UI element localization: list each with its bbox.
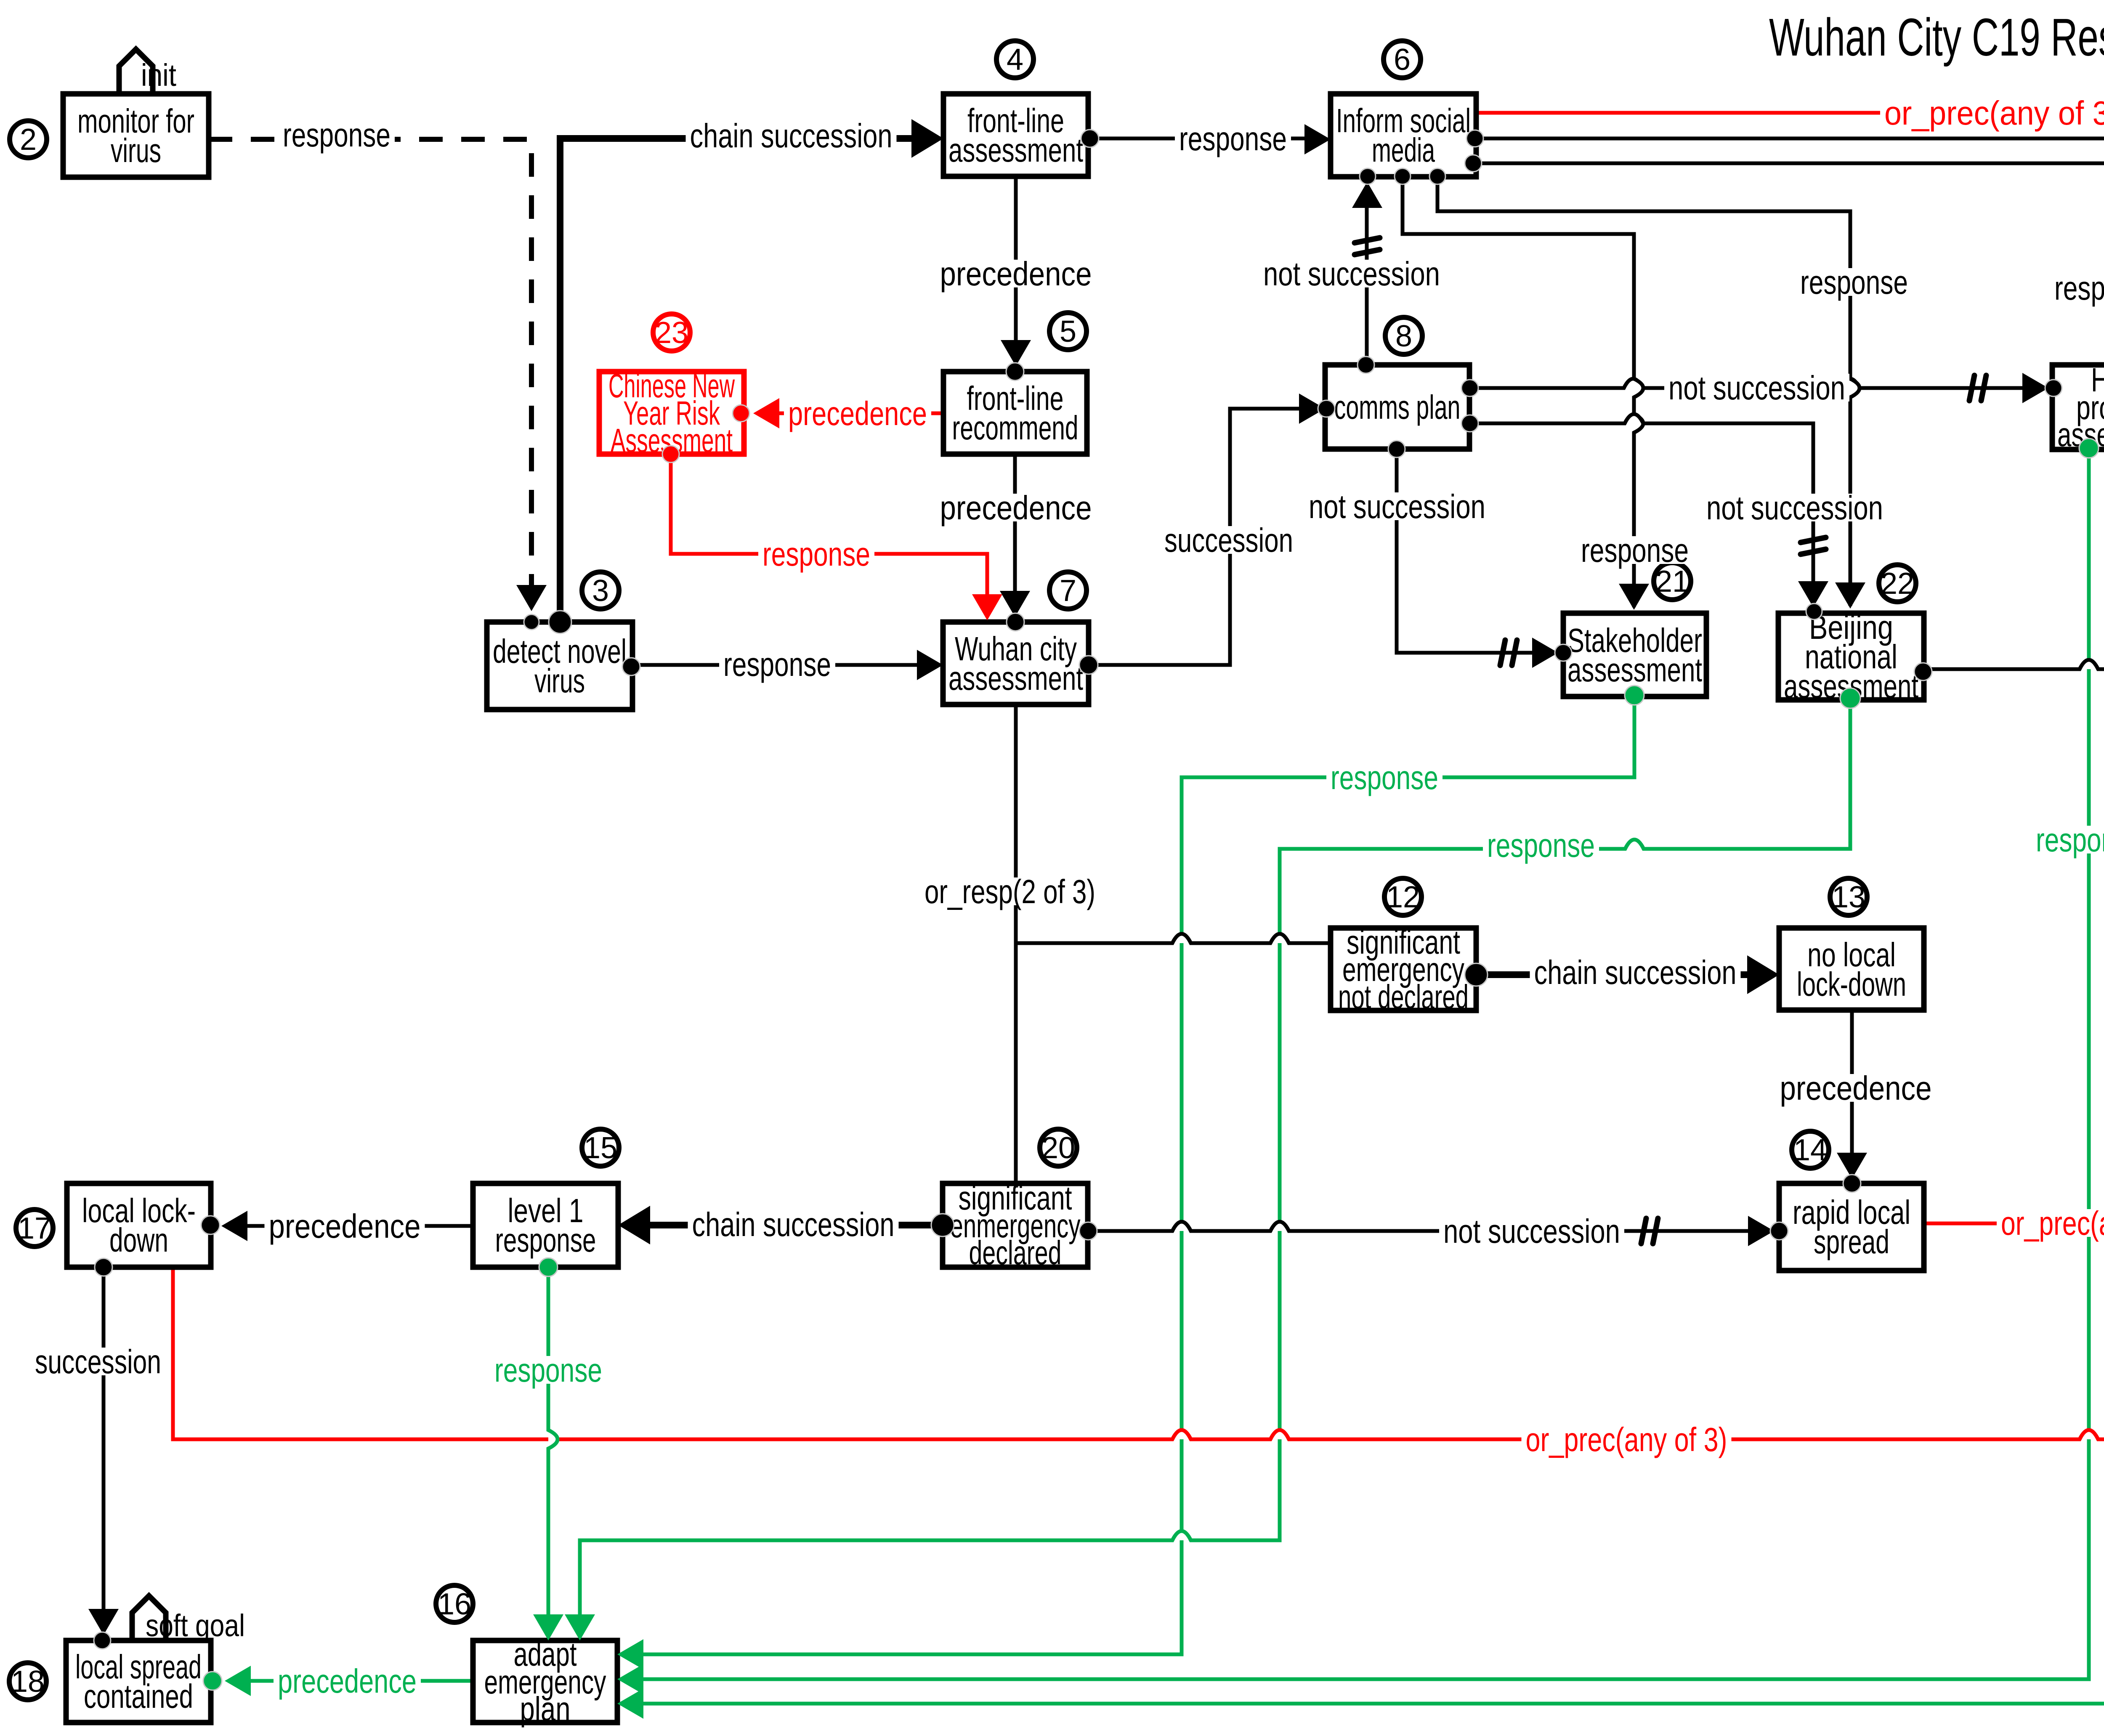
wire chain succession detect->front-line assessment (thick): [560, 138, 937, 611]
markers for succession Wuhan->comms: [1079, 656, 1098, 674]
soft goal house for local spread contained: [132, 1596, 166, 1640]
svg-text:response: response: [1179, 120, 1287, 157]
svg-text:precedence: precedence: [788, 395, 927, 432]
svg-text:8: 8: [1395, 319, 1412, 353]
node number 18: [9, 1663, 46, 1700]
svg-text:22: 22: [1881, 567, 1914, 601]
svg-text:3: 3: [592, 574, 609, 608]
svg-text:assessment: assessment: [1567, 651, 1702, 689]
node number 21: [1654, 563, 1691, 600]
svg-text:assessment: assessment: [948, 659, 1083, 697]
node number 3: [582, 572, 619, 609]
wire response detect->Wuhan city assessment: [631, 663, 938, 667]
svg-text:not succession: not succession: [1443, 1212, 1620, 1250]
svg-text:or_prec(any of 3): or_prec(any of 3): [1884, 94, 2104, 132]
markers for precedence 15->17: [221, 1211, 247, 1241]
label response green (Hubei->adapt): [2032, 826, 2104, 853]
svg-text:response: response: [495, 1221, 596, 1259]
svg-text:response: response: [723, 646, 831, 683]
wire response front-line assessment->Inform social media: [1090, 137, 1326, 141]
svg-text:contained: contained: [84, 1678, 193, 1715]
wire or_resp branch to significant emergency not declared: [1016, 934, 1331, 943]
node 2 monitor for virus: [63, 94, 209, 177]
node 3 detect novel virus: [487, 622, 632, 710]
node 8 comms plan: [1325, 365, 1469, 449]
label precedence (recommend->Wuhan): [936, 494, 1096, 521]
node 17 local lock-down: [67, 1183, 211, 1267]
svg-text:succession: succession: [35, 1343, 161, 1380]
node number 23 (red): [653, 314, 690, 351]
node number 6: [1384, 41, 1421, 78]
node 7 Wuhan city assessment: [943, 622, 1089, 705]
svg-text:not succession: not succession: [1706, 489, 1883, 526]
label not succession (comms->Hubei): [1664, 374, 1849, 401]
svg-text:13: 13: [1832, 880, 1865, 914]
label response (front-line->Inform): [1175, 125, 1291, 152]
svg-text:5: 5: [1060, 315, 1076, 348]
wire succession Wuhan->comms plan: [1089, 409, 1320, 665]
label precedence red (recommend->CNY): [784, 399, 931, 427]
wire not succession comms plan->Stakeholder: [1397, 449, 1557, 653]
node 4 front-line assessment: [943, 94, 1088, 176]
wire response monitor->detect (dashed): [209, 139, 531, 611]
svg-text:succession: succession: [1164, 521, 1293, 559]
svg-text:16: 16: [438, 1587, 471, 1621]
svg-text:precedence: precedence: [269, 1207, 421, 1245]
node 23 Chinese New Year Risk Assessment (red): [599, 367, 744, 459]
wire response green WHO->adapt plan: [621, 701, 2104, 1704]
label precedence (assessment->recommend): [936, 260, 1096, 287]
svg-text:declared: declared: [969, 1234, 1062, 1271]
wire response green Stakeholder->adapt plan: [621, 697, 1634, 1654]
wire precedence front-line recommend->CNY (red): [757, 412, 943, 415]
svg-text:precedence: precedence: [1780, 1069, 1932, 1107]
node number 20: [1040, 1129, 1077, 1166]
svg-text:soft goal: soft goal: [146, 1608, 245, 1643]
wire precedence green adapt plan->local spread contained: [228, 1679, 473, 1683]
svg-text:chain succession: chain succession: [690, 117, 893, 154]
wire precedence front-line recommend->Wuhan city assessment: [1013, 454, 1017, 615]
svg-text:12: 12: [1386, 880, 1420, 914]
label not succession (comms->Stakeholder): [1304, 492, 1490, 520]
wire not succession significant declared->rapid local spread: [1088, 1222, 1772, 1231]
wire or_prec red top Inform->join: [1476, 113, 2104, 962]
label or_prec red top: [1880, 99, 2104, 127]
svg-text:precedence: precedence: [940, 489, 1092, 526]
label response green (Stakeholder->adapt): [1326, 763, 1443, 791]
markers for chain succession 20->15: [931, 1214, 954, 1236]
wire response green Hubei->adapt plan: [621, 448, 2089, 1679]
node 18 local spread contained: [66, 1640, 211, 1723]
node number 22: [1879, 565, 1916, 602]
markers for response assessment->Inform: [1081, 130, 1099, 147]
wire precedence front-line assessment->front-line recommend: [1014, 176, 1018, 364]
svg-text:20: 20: [1041, 1131, 1075, 1165]
label or_prec red bottom: [1522, 1425, 1732, 1453]
node 14 rapid local spread: [1779, 1183, 1924, 1271]
markers for green Stakeholder->adapt: [1625, 686, 1644, 705]
wire not succession comms plan->Inform social media: [1365, 188, 1369, 365]
label succession (17->18): [33, 1348, 163, 1375]
wire chain succession sig-not-declared->no local lock-down (thick): [1476, 971, 1772, 978]
label response red (CNY->Wuhan): [758, 540, 874, 568]
svg-text:not succession: not succession: [1668, 369, 1845, 407]
svg-text:23: 23: [655, 316, 688, 350]
node number 4: [996, 41, 1033, 78]
svg-text:spread: spread: [1814, 1223, 1889, 1260]
node number 2: [10, 121, 47, 158]
svg-text:18: 18: [11, 1665, 45, 1699]
wire response green level 1->adapt plan: [548, 1267, 558, 1637]
svg-text:chain succession: chain succession: [1534, 954, 1737, 991]
svg-text:precedence: precedence: [278, 1662, 417, 1700]
node number 15: [582, 1129, 619, 1166]
label not succession (20->14): [1439, 1217, 1624, 1245]
label response (detect->Wuhan): [719, 650, 835, 678]
svg-text:response: response: [2054, 269, 2104, 307]
svg-text:or_prec(any of 3): or_prec(any of 3): [2001, 1204, 2104, 1242]
svg-text:17: 17: [18, 1212, 51, 1245]
svg-text:response: response: [1331, 759, 1438, 796]
wire chain succession significant declared->level 1 response (thick): [625, 1222, 943, 1228]
svg-text:plan: plan: [520, 1690, 571, 1728]
svg-text:comms plan: comms plan: [1334, 388, 1461, 426]
wire not succession comms plan->Hubei: [1470, 379, 2047, 388]
label precedence (13->14): [1776, 1074, 1936, 1102]
svg-text:21: 21: [1655, 565, 1689, 598]
node 15 level 1 response: [473, 1183, 618, 1267]
markers for not succession comms->Inform: [1358, 356, 1374, 373]
svg-text:init: init: [141, 58, 176, 93]
wire response green Beijing->adapt plan: [580, 700, 1850, 1637]
markers for response monitor->detect: [516, 585, 547, 611]
svg-text:response: response: [1800, 263, 1908, 301]
svg-text:response: response: [494, 1351, 602, 1389]
markers for green level1->adapt: [539, 1258, 558, 1276]
markers for response detect->Wuhan: [622, 658, 640, 675]
label chain succession (detect->front-line): [686, 122, 897, 149]
node 16 adapt emergency plan: [473, 1635, 617, 1728]
label chain succession (12->13): [1530, 958, 1741, 986]
node 13 no local lock-down: [1779, 928, 1924, 1010]
markers for precedence 13->14: [1837, 1153, 1867, 1179]
node 9 Hubei province assessment: [2052, 361, 2104, 453]
svg-text:chain succession: chain succession: [692, 1206, 895, 1243]
svg-text:assessment: assessment: [948, 131, 1083, 169]
label or_resp (2 of 3): [920, 877, 1100, 905]
svg-text:not succession: not succession: [1309, 488, 1485, 525]
wire not succession comms plan->Beijing: [1470, 414, 1813, 605]
wire response Inform->Hubei: [1473, 163, 2104, 359]
label response (Inform->Hubei): [2050, 274, 2104, 302]
node number 13: [1830, 878, 1867, 915]
label response green (Beijing->adapt): [1483, 831, 1599, 859]
markers for green Hubei->adapt: [2079, 439, 2099, 458]
label not succession (comms->Beijing): [1702, 494, 1887, 521]
node 22 Beijing national assessment: [1778, 609, 1924, 705]
wire or_resp Wuhan->significant declared + branch: [1014, 705, 1018, 1183]
markers for not succession comms->Beijing: [1461, 415, 1478, 432]
markers for green precedence adapt->contained: [225, 1666, 251, 1696]
svg-text:media: media: [1372, 131, 1435, 169]
label response (monitor->detect): [279, 121, 395, 149]
svg-text:precedence: precedence: [940, 255, 1092, 292]
wire succession local lock-down->local spread contained: [102, 1267, 106, 1633]
svg-text:response: response: [1487, 827, 1595, 864]
wire precedence no local lock-down->rapid local spread: [1850, 1010, 1854, 1177]
label response (Inform->Stakeholder): [1577, 536, 1693, 564]
markers for succession lockdown->contained: [95, 1258, 112, 1276]
wire precedence level 1 response->local lock-down: [228, 1224, 473, 1228]
svg-text:Wuhan City C19 Response “as-is: Wuhan City C19 Response “as-is” v5v.R3a: [1769, 8, 2104, 67]
svg-text:recommend: recommend: [952, 409, 1079, 447]
node 12 significant emergency not declared: [1331, 923, 1476, 1016]
svg-text:4: 4: [1007, 43, 1023, 77]
markers for response Inform->WHO: [1466, 130, 1483, 147]
wire response Beijing->WHO: [1923, 660, 2104, 669]
markers for not succession comms->Stakeholder: [1388, 441, 1405, 457]
markers for response Inform->Hubei: [1465, 155, 1482, 172]
svg-text:response: response: [2036, 821, 2104, 859]
init marker house: [119, 49, 153, 94]
svg-text:2: 2: [20, 123, 37, 157]
svg-text:7: 7: [1060, 574, 1076, 608]
label not succession (comms->Inform): [1259, 260, 1444, 287]
wire or_prec red mid rapid local spread->join: [1924, 953, 2104, 1223]
node 6 Inform social media: [1331, 94, 1476, 177]
svg-text:14: 14: [1793, 1133, 1827, 1167]
svg-text:response: response: [1581, 532, 1689, 569]
wire response CNY->Wuhan city assessment (red): [671, 454, 987, 615]
svg-text:virus: virus: [111, 132, 161, 169]
line hop patches: [1624, 379, 1642, 388]
markers for precedence red recommend->CNY: [753, 398, 779, 428]
node number 12: [1384, 878, 1421, 915]
markers for chain succession detect->assessment: [549, 611, 571, 633]
svg-text:not succession: not succession: [1263, 255, 1440, 292]
node number 8: [1385, 317, 1422, 354]
markers for precedence recommend->Wuhan: [1000, 591, 1030, 617]
wire response Inform->WHO: [1475, 138, 2104, 609]
svg-text:response: response: [283, 116, 391, 154]
label precedence green (adapt->contained): [274, 1667, 421, 1695]
svg-text:down: down: [109, 1221, 168, 1259]
svg-text:or_prec(any of 3): or_prec(any of 3): [1526, 1421, 1727, 1458]
label chain succession (20->15): [688, 1210, 899, 1238]
node number 14: [1792, 1131, 1829, 1168]
svg-text:not declared: not declared: [1338, 978, 1469, 1016]
wire response Inform->Stakeholder: [1403, 176, 1643, 607]
label or_prec red mid (rapid->join): [1997, 1209, 2104, 1237]
markers for precedence assessment->recommend: [1001, 340, 1031, 366]
node number 7: [1049, 572, 1087, 609]
svg-text:15: 15: [584, 1131, 617, 1165]
node number 5: [1049, 313, 1087, 350]
node number 16: [436, 1585, 473, 1622]
svg-text:6: 6: [1394, 43, 1411, 77]
markers for not succession comms->Hubei: [1461, 380, 1478, 396]
wire response Inform->Beijing: [1437, 176, 1860, 606]
svg-text:response: response: [762, 535, 870, 573]
wire or_prec red bottom local lock-down->join: [173, 962, 2104, 1439]
markers for response red CNY->Wuhan: [662, 446, 679, 463]
label response green (level1->adapt): [490, 1356, 606, 1384]
node 21 Stakeholder assessment: [1563, 613, 1706, 697]
svg-text:or_resp(2 of 3): or_resp(2 of 3): [924, 873, 1095, 910]
svg-text:virus: virus: [534, 662, 585, 699]
label succession (Wuhan->comms): [1160, 526, 1297, 554]
markers for not succession 20->14: [1079, 1222, 1097, 1240]
markers for response Inform->Beijing: [1429, 168, 1445, 184]
node 5 front-line recommend: [943, 372, 1087, 454]
markers for chain succession 12->13: [1465, 963, 1488, 986]
markers for response Beijing->WHO: [1914, 663, 1932, 681]
label precedence (15->17): [265, 1212, 425, 1240]
svg-text:lock-down: lock-down: [1797, 965, 1906, 1003]
markers for response Inform->Stakeholder: [1395, 168, 1411, 184]
markers for green Beijing->adapt: [1840, 688, 1860, 708]
node number 17: [16, 1210, 53, 1247]
node 20 significant enmergency declared: [943, 1179, 1088, 1271]
label response (Inform->Beijing): [1796, 268, 1912, 296]
label response (Hubei->WHO): [2103, 533, 2104, 561]
